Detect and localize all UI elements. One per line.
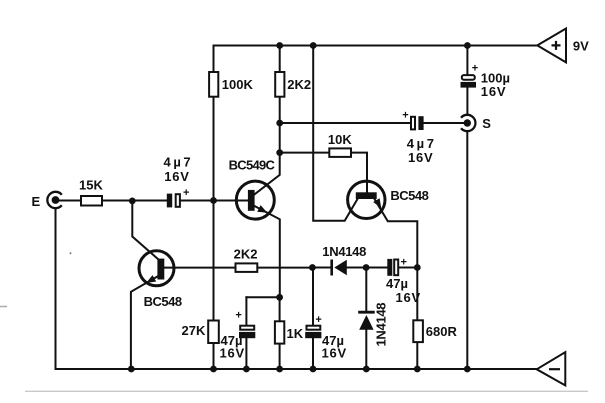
scan artifact faint rule bbox=[25, 390, 588, 392]
svg-text:+: + bbox=[402, 109, 408, 121]
resistor R6 27K bbox=[182, 321, 219, 344]
transistor Q3 BC548 bbox=[348, 181, 429, 218]
wire Q1 base to 2K2 (middle) bbox=[164, 267, 236, 269]
svg-text:16V: 16V bbox=[164, 169, 190, 184]
wire 27K bottom to ground rail bbox=[213, 343, 215, 369]
wire input cap C1 to node at 100K column bbox=[181, 200, 214, 202]
resistor R2 100K bbox=[209, 72, 253, 97]
svg-text:680R: 680R bbox=[426, 324, 458, 339]
svg-text:27K: 27K bbox=[182, 323, 206, 338]
svg-text:10K: 10K bbox=[328, 132, 352, 147]
svg-text:+: + bbox=[472, 63, 478, 75]
wire E connector down leg bbox=[55, 208, 57, 369]
wire emitter node to 1K and ground bbox=[279, 297, 281, 369]
svg-text:4µ7: 4µ7 bbox=[407, 136, 437, 151]
wire output cap C6 to S connector bbox=[423, 122, 464, 124]
svg-text:+: + bbox=[315, 314, 321, 326]
svg-text:1K: 1K bbox=[287, 326, 304, 341]
resistor R8 680R bbox=[413, 320, 457, 342]
svg-text:100K: 100K bbox=[222, 77, 254, 92]
wire D1 to node B bbox=[347, 267, 366, 269]
scan artifact left dash bbox=[0, 306, 7, 308]
svg-text:E: E bbox=[32, 194, 41, 209]
wire top supply rail bbox=[214, 45, 538, 47]
resistor R1 15K bbox=[79, 178, 103, 206]
svg-text:47µ: 47µ bbox=[386, 276, 408, 291]
svg-text:16V: 16V bbox=[220, 346, 246, 361]
svg-text:16V: 16V bbox=[396, 290, 422, 305]
capacitor C7 47u horizontal bbox=[386, 256, 421, 305]
node ground/C5 bbox=[310, 366, 317, 373]
wire node C through 680R to ground bbox=[416, 268, 418, 370]
svg-text:BC548: BC548 bbox=[390, 188, 428, 203]
svg-text:+: + bbox=[235, 309, 241, 321]
capacitor C4 47u bbox=[220, 309, 256, 360]
node rail/Q3 collector column bbox=[310, 42, 317, 49]
capacitor C6 4u7 output bbox=[402, 109, 436, 165]
capacitor C1 4u7 input bbox=[164, 154, 194, 207]
node ground/680R bbox=[414, 366, 421, 373]
scan artifact speck bbox=[70, 252, 72, 254]
node ground/C4 bbox=[243, 366, 250, 373]
wire Q2 base from input node bbox=[214, 200, 248, 202]
node B diode row middle bbox=[363, 264, 370, 271]
node input/Q1 collector bbox=[129, 198, 136, 205]
wire output row from collector column to output cap C6 bbox=[280, 122, 411, 124]
svg-text:+: + bbox=[401, 256, 407, 268]
svg-text:S: S bbox=[482, 116, 491, 131]
wire diode row: node A to D1 bbox=[312, 267, 330, 269]
node ground/S column bbox=[464, 366, 471, 373]
capacitor C5 47u bbox=[305, 314, 347, 361]
wire emitter node left to 47u C4 branch bbox=[246, 296, 279, 298]
svg-text:BC549C: BC549C bbox=[229, 158, 276, 173]
wire 10K to Q3 base bbox=[351, 153, 367, 193]
wire Q1 collector: input node diagonal to transistor bar bbox=[132, 201, 158, 259]
transistor Q2 BC549C bbox=[229, 158, 276, 220]
wire E to 15K bbox=[57, 200, 81, 202]
power minus terminal bbox=[537, 352, 566, 385]
node ground/Q1 emitter bbox=[128, 366, 135, 373]
wire rail tap down to Q3 collector bbox=[313, 46, 357, 221]
diode D2 1N4148 vertical bbox=[358, 303, 388, 347]
transistor Q1 BC548 bbox=[139, 251, 182, 309]
resistor R3 2K2 top bbox=[275, 72, 311, 97]
node C diode row right bbox=[414, 264, 421, 271]
svg-text:16V: 16V bbox=[408, 150, 434, 165]
connector E input bbox=[32, 192, 62, 209]
node input/Q2 base bbox=[210, 197, 217, 204]
svg-text:2K2: 2K2 bbox=[287, 77, 311, 92]
wire Q2 collector diagonal bbox=[254, 153, 280, 195]
svg-text:1N4148: 1N4148 bbox=[374, 303, 389, 347]
wire D2 vertical branch bbox=[365, 268, 367, 370]
node ground/27K bbox=[210, 366, 217, 373]
wire S connector down to ground rail bbox=[466, 131, 468, 369]
wire node B to cap C7 bbox=[366, 267, 387, 269]
svg-text:2K2: 2K2 bbox=[234, 247, 258, 262]
node ground/D2 bbox=[363, 366, 370, 373]
resistor R7 1K bbox=[275, 321, 304, 343]
wire Q3 emitter down to diode row node C bbox=[375, 199, 418, 268]
wire left column: rail to 100K bbox=[213, 46, 215, 73]
wire 47u C4 branch down bbox=[245, 297, 247, 369]
diode D1 1N4148 horizontal bbox=[322, 244, 366, 276]
wire cap C7 to node C bbox=[399, 267, 417, 269]
capacitor C3 100u bbox=[461, 63, 510, 99]
svg-text:1N4148: 1N4148 bbox=[322, 244, 366, 259]
wire 100K bottom to input node and down to 27K bbox=[213, 97, 215, 321]
node rail/100u bbox=[464, 42, 471, 49]
wire Q2 emitter diagonal and down bbox=[254, 206, 280, 298]
power +9V terminal bbox=[537, 29, 589, 63]
svg-text:9V: 9V bbox=[573, 38, 589, 53]
wire 15K to input cap C1 bbox=[102, 200, 167, 202]
node Q2 emitter/1K bbox=[276, 294, 283, 301]
svg-text:4µ7: 4µ7 bbox=[164, 154, 194, 169]
node rail/2K2 bbox=[276, 42, 283, 49]
wire 2K2 (top) from rail down bbox=[279, 46, 281, 73]
wire 2K2 (top) bottom through output tap to collector node bbox=[279, 97, 281, 153]
connector S output bbox=[461, 115, 491, 131]
svg-text:+: + bbox=[183, 187, 189, 199]
wire Q1 emitter to ground rail bbox=[131, 277, 158, 370]
svg-text:16V: 16V bbox=[481, 84, 507, 99]
node Q2 collector/10K bbox=[276, 149, 283, 156]
wire 47u C5 branch below node A bbox=[312, 268, 314, 370]
wire bottom ground rail bbox=[56, 368, 537, 370]
node output tap bbox=[276, 120, 283, 127]
svg-text:BC548: BC548 bbox=[144, 294, 182, 309]
resistor R5 2K2 middle bbox=[234, 247, 258, 272]
node ground/1K bbox=[276, 366, 283, 373]
svg-text:16V: 16V bbox=[322, 346, 348, 361]
wire 10K row from collector node bbox=[280, 152, 330, 154]
resistor R4 10K bbox=[328, 132, 352, 157]
svg-text:15K: 15K bbox=[79, 178, 103, 193]
node A diode row left bbox=[309, 264, 316, 271]
wire 2K2 (middle) to diode node A bbox=[257, 267, 312, 269]
wire 100u from rail to S connector bbox=[466, 46, 468, 115]
